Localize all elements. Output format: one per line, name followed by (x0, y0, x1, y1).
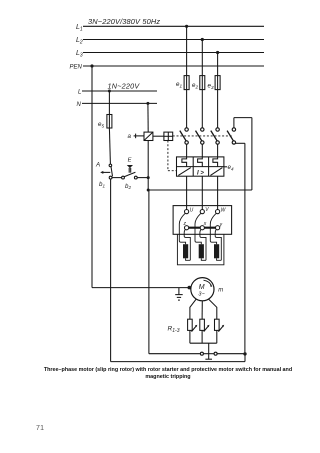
svg-text:L1: L1 (76, 24, 83, 33)
svg-text:1N~220V: 1N~220V (108, 81, 141, 90)
fuse e5 (98, 115, 112, 129)
svg-text:W: W (221, 208, 227, 214)
latch box (crossed) (164, 132, 173, 140)
svg-text:e5: e5 (98, 121, 104, 128)
svg-text:PEN: PEN (70, 65, 83, 71)
terminal V (200, 210, 204, 214)
terminal X (200, 226, 204, 230)
terminal box outline (173, 206, 232, 235)
terminal Y (216, 226, 220, 230)
svg-text:b2: b2 (125, 183, 131, 190)
wire trip block to terminal U (186, 176, 188, 209)
wire pole 4 out (234, 143, 245, 354)
svg-text:3N~220V/380V 50Hz: 3N~220V/380V 50Hz (88, 17, 160, 26)
rotor resistor R3 (215, 319, 225, 331)
main contact pole 2 (196, 128, 205, 144)
connector socket right (214, 352, 217, 355)
fuse e1 (176, 76, 189, 90)
wire b1 down (110, 179, 112, 362)
svg-text:U: U (190, 208, 194, 214)
svg-text:M: M (199, 284, 205, 291)
internal link W down (210, 213, 216, 244)
internal link X down (200, 230, 206, 261)
terminal U (185, 210, 189, 214)
main contact pole 3 (211, 128, 220, 144)
outer rail (111, 354, 245, 362)
wire phase 3 drop (217, 53, 219, 76)
pushbutton b2 (NO, E=on) (122, 158, 138, 191)
rotor lead 1 (190, 299, 197, 319)
wire pole outputs to trip block (186, 144, 188, 157)
trip coil box (diagonal) (144, 132, 153, 140)
wire b1 to b2 (112, 177, 122, 179)
svg-text:I >: I > (197, 171, 204, 177)
rotor lead 2 (201, 301, 203, 319)
mechanical link dashed to contacts (173, 135, 233, 137)
terminal W (216, 210, 220, 214)
main contact pole 4 (N) (227, 128, 235, 144)
terminal Z (185, 226, 189, 230)
wire control N (82, 102, 157, 104)
svg-text:L3: L3 (76, 50, 83, 59)
bus L2 (83, 39, 264, 41)
wire phase 1 to contact (186, 90, 188, 128)
stator frame (177, 234, 224, 264)
svg-text:y: y (219, 222, 223, 228)
bus PEN (83, 65, 264, 67)
internal link Z down (184, 230, 190, 261)
node PEN tap (90, 64, 93, 67)
node L3 tap (216, 51, 219, 54)
wire b2 to node (137, 177, 148, 179)
wire N return riser to pole 4 (234, 118, 252, 190)
thermal release pole 1 (182, 157, 187, 167)
svg-text:z: z (183, 221, 187, 227)
inner rail (149, 353, 245, 355)
caption (8, 367, 320, 381)
svg-text:b1: b1 (99, 181, 105, 188)
main contact pole 1 (180, 128, 189, 144)
svg-text:3~: 3~ (198, 291, 205, 297)
wire PEN down (91, 66, 93, 288)
rotor resistor R1 (188, 319, 198, 331)
svg-text:a: a (128, 133, 132, 140)
fuse e3 (208, 76, 221, 90)
thermal release pole 2 (198, 157, 203, 167)
stator winding 3 (214, 244, 221, 260)
motor M1 (191, 278, 224, 301)
node N tap (146, 102, 149, 105)
svg-text:E: E (128, 158, 132, 164)
svg-text:e2: e2 (192, 82, 198, 89)
wire L tap down (108, 91, 110, 115)
wire PEN to motor (92, 287, 191, 289)
svg-text:L2: L2 (76, 37, 83, 46)
wire coil down (147, 141, 149, 191)
stator winding 2 (199, 244, 206, 260)
wire N tap down to trip coil (147, 103, 149, 132)
wire phase 3 to contact (217, 90, 219, 128)
bus L1 (83, 25, 264, 27)
svg-text:e4: e4 (228, 164, 234, 171)
node L tap (108, 90, 111, 93)
svg-text:A: A (95, 161, 100, 168)
wire phase 2 to contact (201, 90, 203, 128)
svg-text:R1-3: R1-3 (168, 325, 180, 333)
svg-text:x: x (203, 221, 207, 227)
svg-text:L: L (78, 90, 81, 96)
trip block e4 outline (177, 157, 224, 176)
pushbutton b1 (NC, A=off) (95, 161, 113, 188)
mechanical link dashed to trip block (168, 141, 177, 171)
star bridge bar (187, 227, 218, 229)
internal link U down (179, 213, 185, 244)
connector socket left (200, 352, 203, 355)
internal link V down (195, 213, 201, 244)
wire control L (82, 90, 157, 92)
internal link Y down (215, 230, 221, 261)
wire phase 2 drop (201, 40, 203, 76)
starter common bracket (190, 330, 217, 343)
wire e5 to b1 (109, 128, 110, 164)
ground (175, 288, 183, 301)
svg-text:V: V (205, 207, 209, 213)
node rails join (243, 352, 246, 355)
node motor frame (188, 286, 192, 290)
terminal a lead (128, 133, 145, 140)
svg-text:m: m (218, 287, 223, 293)
wire trip block to terminal V (201, 176, 203, 209)
link coil to latch (153, 135, 164, 137)
bus L3 (83, 52, 264, 54)
magnetic release pole 1 (178, 168, 191, 176)
fuse e2 (192, 76, 205, 90)
node N return join (147, 189, 150, 192)
wire trip block to terminal W (217, 176, 219, 209)
svg-text:N: N (77, 102, 82, 108)
svg-text:e3: e3 (208, 83, 214, 90)
node b2 join (147, 176, 150, 179)
wire phase 1 drop (186, 26, 188, 75)
svg-text:e1: e1 (176, 81, 182, 88)
node L1 tap (185, 25, 188, 28)
thermal release pole 3 (213, 157, 218, 167)
page number (36, 425, 44, 432)
stator winding 1 (183, 244, 190, 260)
node L2 tap (201, 38, 204, 41)
rotor resistor R2 (200, 319, 210, 331)
label e4 (224, 164, 234, 171)
wire control to inner rail (148, 190, 150, 354)
wire N return run (148, 189, 252, 191)
rotor lead 3 (208, 299, 217, 319)
starter tap arm (205, 343, 212, 359)
magnetic release pole 3 (210, 168, 222, 176)
